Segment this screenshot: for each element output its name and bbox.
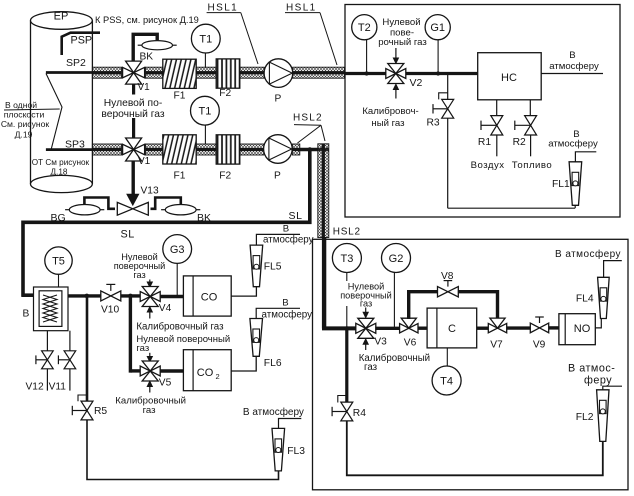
heated line seg F1-F2 row2 — [196, 144, 216, 155]
svg-text:FL2: FL2 — [576, 412, 594, 423]
wire SL long horizontal — [22, 221, 312, 225]
label V10 — [101, 304, 119, 315]
wire bypass right — [458, 292, 497, 319]
svg-text:Нулевой по-: Нулевой по- — [104, 98, 163, 109]
valve V8 — [438, 281, 459, 297]
arrow calibration into V3 — [363, 339, 368, 350]
svg-text:Нулевой: Нулевой — [382, 17, 420, 28]
valve V1 row2 — [123, 138, 145, 161]
valve V9 — [530, 317, 548, 333]
wire C to V7 — [477, 327, 489, 330]
svg-text:атмосферу: атмосферу — [263, 234, 314, 245]
label FL1 — [552, 179, 570, 190]
label HSL1 first — [207, 3, 241, 14]
svg-text:V1: V1 — [138, 82, 151, 93]
wire cooler drain V11 — [69, 331, 71, 352]
svg-text:NO: NO — [574, 323, 591, 335]
label FL2 — [576, 412, 594, 423]
svg-text:ный газ: ный газ — [371, 118, 405, 129]
wire HC outlet — [541, 73, 603, 75]
heated line HSL1 seg P-panel — [293, 67, 345, 78]
leader HSL1 second — [320, 13, 337, 65]
wire FL3 top elbow — [279, 419, 302, 429]
rotameter FL5 — [250, 245, 263, 287]
svg-text:2: 2 — [216, 372, 220, 381]
wire pump to junction — [300, 148, 330, 151]
label FL6 — [264, 358, 282, 369]
note v atmosferu FL6 — [262, 298, 313, 321]
heated coupling after pump row2 — [292, 144, 299, 155]
note calibration gas V5 — [115, 395, 186, 416]
cooler B inner box — [39, 291, 62, 327]
probe SP3 — [46, 148, 95, 151]
instrument G2 — [382, 244, 411, 273]
svg-text:G2: G2 — [389, 253, 404, 265]
svg-text:V2: V2 — [410, 77, 423, 89]
wire G1 leader — [437, 40, 439, 74]
rotameter FL6 — [250, 319, 263, 357]
note zero gas V5 line1 — [136, 334, 230, 345]
svg-text:К PSS, см. рисунок Д.19: К PSS, см. рисунок Д.19 — [95, 15, 199, 25]
svg-text:R1: R1 — [478, 137, 491, 148]
in-duct probe slant lines — [46, 74, 62, 151]
regulator R3 — [433, 93, 454, 118]
node T2 junction — [365, 71, 369, 75]
svg-text:B: B — [23, 308, 30, 319]
wire CO to FL5 — [231, 287, 256, 296]
label HSL2 lower — [333, 226, 361, 237]
heated line HSL1 seg V1-F1 — [146, 67, 163, 78]
wire V12 outlet — [46, 369, 48, 391]
instrument G1 — [425, 15, 450, 40]
label V4 — [159, 303, 172, 314]
heated line seg V1-F1 row2 — [146, 144, 163, 155]
svg-text:SL: SL — [289, 210, 303, 222]
svg-text:В атмосферу: В атмосферу — [243, 406, 304, 418]
wire SL vertical right — [308, 150, 312, 225]
note zero gas top rows — [97, 95, 169, 121]
label Toplivo — [512, 160, 552, 171]
rotameter FL4 — [598, 277, 610, 318]
node R5 branch — [85, 294, 90, 299]
svg-text:Воздух: Воздух — [471, 160, 505, 171]
wire R4 branch down — [345, 328, 348, 402]
cooler B outer box — [34, 287, 69, 331]
svg-text:FL4: FL4 — [576, 293, 594, 304]
svg-text:верочный газ: верочный газ — [101, 109, 165, 120]
node G1 junction — [436, 71, 440, 75]
label EP — [54, 11, 69, 23]
svg-text:газ: газ — [143, 405, 157, 416]
instrument T1 row2 — [191, 96, 220, 125]
wire FL6 top elbow — [256, 308, 300, 318]
heated line HSL1 seg F2-P — [240, 67, 264, 78]
wire fuel inlet — [530, 135, 532, 157]
wire T3 leader — [346, 273, 348, 329]
svg-text:V3: V3 — [374, 336, 387, 347]
analyzer CO2 box — [183, 350, 231, 391]
stack duct EP body — [31, 12, 93, 193]
svg-text:HSL1: HSL1 — [208, 3, 239, 14]
svg-text:BG: BG — [51, 212, 66, 224]
label NO — [574, 323, 591, 335]
note zero gas V5 line2 — [136, 343, 149, 354]
valve V12 — [36, 351, 53, 369]
rotameter FL3 — [272, 428, 285, 471]
svg-text:F1: F1 — [174, 90, 186, 101]
valve V2 — [386, 64, 406, 84]
svg-text:В: В — [569, 50, 575, 61]
wire V9 to NO — [549, 326, 559, 329]
label FL5 — [264, 262, 282, 273]
label V13 — [141, 186, 159, 197]
note v atmosferu FL2 — [568, 363, 615, 387]
filter F1 row2 — [163, 135, 196, 164]
filter F2 row1 — [216, 59, 240, 88]
label V12 — [26, 381, 44, 392]
wire CO2 to FL6 — [231, 357, 256, 372]
wire branch to V5 — [130, 369, 141, 372]
wire cooler to V10 — [68, 294, 102, 297]
wire air inlet — [496, 135, 498, 157]
label P row1 — [275, 94, 282, 105]
aspirator bulb BK bottom — [161, 205, 200, 215]
analyzer NO box — [559, 314, 595, 345]
svg-text:F2: F2 — [219, 88, 231, 99]
wire V10 to V4 — [121, 294, 141, 297]
svg-text:G1: G1 — [430, 22, 445, 34]
svg-text:G3: G3 — [170, 244, 185, 256]
note OT see D.18 — [32, 158, 90, 177]
svg-text:P: P — [275, 94, 282, 105]
svg-text:Нулевой поверочный: Нулевой поверочный — [136, 334, 230, 345]
wire HSL2 plain down — [322, 237, 326, 328]
svg-text:V12: V12 — [26, 381, 44, 392]
svg-text:газ: газ — [133, 270, 145, 280]
pump P row2 — [264, 135, 293, 164]
wire cooler drain V12 — [46, 331, 48, 352]
svg-text:T2: T2 — [358, 22, 371, 34]
arrow zero gas into V2 — [393, 48, 398, 64]
filter F1 row1 — [163, 59, 196, 88]
aspirator bulb BK top — [138, 41, 177, 50]
valve R2 — [515, 116, 537, 135]
wire V5 to CO2 — [160, 369, 184, 372]
label V8 — [441, 271, 454, 282]
svg-text:T1: T1 — [199, 34, 212, 46]
note V odnoy ploskosti — [1, 100, 50, 139]
wire V4 to CO — [160, 295, 184, 298]
panel HC outline — [345, 5, 620, 218]
heated line seg F2-P row2 — [240, 144, 264, 155]
valve V4 — [140, 287, 160, 307]
note zero gas V3 — [340, 281, 392, 309]
valve V3 — [356, 318, 376, 338]
wire V1a down to text — [132, 84, 135, 95]
svg-text:HSL1: HSL1 — [286, 3, 317, 14]
svg-text:T3: T3 — [340, 253, 353, 265]
svg-text:атмосферу: атмосферу — [262, 309, 313, 320]
valve V6 — [400, 318, 418, 333]
note zero gas V4 — [114, 252, 166, 280]
analyzer CO box — [183, 276, 231, 316]
label V9 — [533, 339, 546, 350]
svg-text:T1: T1 — [198, 106, 211, 118]
wire FL5 top elbow — [256, 234, 300, 245]
valve V5 — [140, 361, 160, 381]
svg-text:R5: R5 — [94, 406, 107, 417]
svg-text:V7: V7 — [490, 339, 503, 350]
wire T5 leader — [58, 274, 60, 287]
svg-text:ОТ См рисунок: ОТ См рисунок — [32, 158, 90, 167]
svg-text:V10: V10 — [101, 304, 119, 315]
label SL right — [289, 210, 303, 222]
wire T1b leader — [204, 125, 206, 144]
leader HSL2 underline — [294, 124, 321, 127]
wire R5 branch down — [86, 296, 89, 401]
valve V13 three-way — [117, 194, 148, 215]
cooler B coil — [43, 295, 57, 322]
wire V13 right elbow — [151, 198, 181, 209]
label F2 row2 — [219, 171, 231, 182]
svg-text:SP3: SP3 — [65, 139, 85, 151]
probe SP2 — [46, 71, 95, 74]
label HC — [501, 72, 517, 84]
label CO2 — [197, 367, 220, 381]
label BG — [51, 212, 66, 224]
analyzer C box — [427, 308, 477, 348]
wire HSL2 to V3 — [322, 326, 357, 330]
svg-text:R2: R2 — [513, 137, 526, 148]
arrow calibration into V4 — [147, 307, 152, 319]
label F1 row1 — [174, 90, 186, 101]
svg-text:FL3: FL3 — [287, 446, 305, 457]
arrow zero gas into V4 — [147, 280, 152, 288]
svg-text:атмосферу: атмосферу — [548, 139, 598, 150]
rotameter FL1 — [569, 162, 582, 206]
note v atmosferu FL5 — [263, 223, 314, 245]
svg-text:V4: V4 — [159, 303, 172, 314]
wire main line panel1 — [345, 72, 478, 75]
wire V6 to C — [418, 327, 427, 330]
node V5 branch — [128, 294, 133, 299]
label HSL1 second — [285, 3, 320, 14]
label CO — [201, 292, 218, 304]
note calibration gas V4 — [136, 321, 224, 332]
svg-text:R4: R4 — [353, 408, 366, 419]
valve V10 — [101, 284, 121, 301]
wire bypass left — [409, 292, 438, 319]
label PSP — [71, 35, 93, 47]
wire G2 leader — [393, 273, 395, 329]
label Vozduh — [471, 160, 505, 171]
wire FL2 top elbow — [603, 386, 622, 390]
svg-text:PSP: PSP — [71, 35, 93, 47]
arrow zero gas into V3 — [363, 308, 368, 318]
svg-text:В атмос-: В атмос- — [568, 363, 615, 375]
note v atmosferu FL4 — [555, 248, 621, 260]
label C — [448, 323, 456, 335]
wire HC port fuel — [529, 100, 531, 117]
svg-text:F2: F2 — [219, 171, 231, 182]
svg-text:HSL2: HSL2 — [333, 226, 361, 237]
svg-text:Калибровочный газ: Калибровочный газ — [136, 321, 224, 332]
label V2 — [410, 77, 423, 89]
svg-text:T4: T4 — [440, 375, 453, 387]
arrow zero gas into V5 — [147, 353, 152, 362]
wire V13 left elbow — [84, 198, 115, 209]
heated line HSL2 seg duct-V1 — [92, 144, 121, 155]
svg-text:V5: V5 — [159, 377, 172, 388]
panel NO outline — [313, 239, 629, 489]
wire HC port air — [496, 100, 498, 117]
wire FL1 top elbow — [575, 152, 596, 163]
heated line HSL2 vertical — [318, 144, 329, 238]
svg-text:В: В — [283, 223, 289, 234]
wire T2 leader — [366, 40, 368, 74]
svg-text:SP2: SP2 — [66, 57, 86, 69]
label V5 — [159, 377, 172, 388]
regulator R5 — [72, 395, 93, 420]
instrument T3 — [332, 244, 361, 273]
label B — [23, 308, 30, 319]
node SL-HSL2 split — [308, 147, 313, 152]
instrument G3 — [163, 235, 192, 264]
wire V1a to PSS elbow — [133, 34, 157, 62]
note zero gas V2 — [378, 17, 427, 48]
instrument T1 row1 — [191, 24, 220, 53]
label V1 row1 — [138, 82, 151, 93]
label FL3 — [287, 446, 305, 457]
svg-text:CO: CO — [197, 367, 214, 379]
label SP3 — [65, 139, 85, 151]
svg-text:феру: феру — [584, 375, 612, 387]
note v atmosferu HC — [549, 50, 599, 72]
valve V1 row1 — [123, 61, 145, 84]
label V6 — [404, 337, 417, 348]
box HC — [478, 53, 542, 100]
svg-text:V6: V6 — [404, 337, 417, 348]
svg-text:C: C — [448, 323, 456, 335]
wire V7 to V9 — [507, 326, 531, 329]
label R3 — [427, 118, 440, 129]
wire V1b to V13 — [131, 162, 134, 196]
svg-text:F1: F1 — [174, 171, 186, 182]
label V1 row2 — [138, 156, 151, 167]
svg-text:P: P — [274, 171, 281, 182]
svg-text:плоскости: плоскости — [4, 110, 45, 120]
valve V11 — [58, 351, 75, 369]
label HSL2 upper — [293, 113, 323, 124]
note calibration gas V2 — [362, 106, 418, 129]
arrow calibration into V2 — [393, 84, 398, 99]
label FL4 — [576, 293, 594, 304]
svg-text:BK: BK — [197, 212, 211, 224]
wire SL left down — [21, 221, 25, 297]
svg-text:рочный газ: рочный газ — [378, 37, 427, 48]
heated line HSL1 seg F1-F2 — [196, 67, 216, 78]
svg-text:R3: R3 — [427, 118, 440, 129]
svg-text:Топливо: Топливо — [512, 160, 552, 171]
wire R4 to FL2 — [347, 421, 603, 475]
aspirator bulb BG — [65, 205, 104, 215]
note v atmosferu FL1 — [548, 129, 598, 150]
label V7 — [490, 339, 503, 350]
wire R3 to FL1 bottom — [448, 207, 575, 209]
label SP2 — [66, 57, 86, 69]
zero gas wire between V1 valves — [132, 95, 135, 138]
label SL mid — [121, 229, 135, 241]
probe PSP — [62, 33, 100, 55]
label R5 — [94, 406, 107, 417]
svg-text:Д.19: Д.19 — [15, 129, 33, 139]
label V3 — [374, 336, 387, 347]
svg-text:В атмосферу: В атмосферу — [555, 248, 621, 260]
instrument T2 — [352, 15, 377, 40]
valve V7 — [488, 318, 506, 333]
instrument T4 — [432, 366, 461, 395]
wire NO to FL4 — [595, 319, 601, 328]
leader HSL2 right — [321, 125, 325, 141]
svg-text:В: В — [282, 298, 288, 309]
node R4 branch — [345, 326, 349, 330]
svg-text:V13: V13 — [141, 186, 159, 197]
svg-text:газ: газ — [136, 343, 149, 354]
heated line HSL1 seg duct-V1 — [92, 67, 121, 78]
wire V3 to V6 — [375, 327, 400, 330]
svg-text:V11: V11 — [49, 381, 67, 392]
note K PSS — [95, 15, 199, 25]
arrow calibration into V5 — [147, 381, 152, 393]
valve R1 — [481, 116, 503, 135]
wire SL into cooler — [22, 293, 34, 297]
wire G3 leader — [176, 263, 178, 296]
label BK bottom — [197, 212, 211, 224]
svg-text:FL6: FL6 — [264, 358, 282, 369]
note v atmosferu FL3 — [243, 406, 304, 418]
label P row2 — [274, 171, 281, 182]
wire T1a leader — [204, 53, 206, 67]
wire V11 outlet — [69, 369, 71, 391]
filter F2 row2 — [216, 135, 240, 164]
svg-text:газ: газ — [364, 362, 378, 373]
leader to note D.19 — [4, 109, 60, 110]
instrument T5 — [45, 247, 72, 274]
svg-text:Калибровоч-: Калибровоч- — [362, 106, 418, 117]
svg-text:FL5: FL5 — [264, 262, 282, 273]
wire branch down to V5 — [129, 296, 132, 373]
rotameter FL2 — [597, 390, 609, 442]
label V11 — [49, 381, 67, 392]
svg-text:V9: V9 — [533, 339, 546, 350]
leader HSL2 left — [298, 125, 322, 143]
svg-text:НС: НС — [501, 72, 517, 84]
label R2 — [513, 137, 526, 148]
svg-text:V1: V1 — [138, 156, 151, 167]
note calibration gas V3 — [359, 353, 430, 373]
svg-text:SL: SL — [121, 229, 135, 241]
leader HSL1 first — [241, 13, 258, 64]
label F1 row2 — [174, 171, 186, 182]
svg-text:Д.18: Д.18 — [51, 168, 68, 177]
svg-text:EP: EP — [54, 11, 69, 23]
svg-text:FL1: FL1 — [552, 179, 570, 190]
wire R3 down — [447, 118, 449, 208]
svg-text:В одной: В одной — [5, 100, 37, 110]
svg-text:См. рисунок: См. рисунок — [1, 119, 50, 129]
pump P row1 — [264, 59, 293, 88]
svg-text:T5: T5 — [52, 256, 65, 268]
